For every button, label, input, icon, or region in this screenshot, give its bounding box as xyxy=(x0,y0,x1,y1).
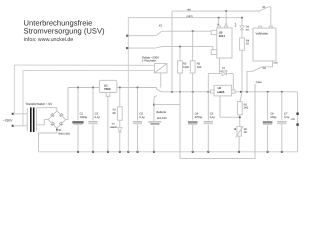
svg-text:9x1,2Ah: 9x1,2Ah xyxy=(157,117,167,120)
svg-text:L4805: L4805 xyxy=(217,91,225,94)
svg-text:100µ: 100µ xyxy=(270,116,276,119)
svg-text:U1: U1 xyxy=(104,84,108,87)
svg-text:DK: DK xyxy=(244,131,247,134)
svg-text:C6: C6 xyxy=(270,112,273,115)
svg-text:~230V: ~230V xyxy=(3,119,13,123)
svg-text:Batterie: Batterie xyxy=(156,111,166,114)
svg-text:100K: 100K xyxy=(183,66,189,69)
svg-text:C7: C7 xyxy=(284,112,287,115)
svg-text:D2: D2 xyxy=(112,123,115,126)
svg-text:Transformator ~ 9V: Transformator ~ 9V xyxy=(26,102,53,106)
svg-text:0,1µ: 0,1µ xyxy=(210,116,215,119)
svg-text:B40C-800: B40C-800 xyxy=(59,132,70,135)
svg-text:C1: C1 xyxy=(80,112,83,115)
svg-text:1000µ: 1000µ xyxy=(80,116,88,119)
svg-text:0,1µ: 0,1µ xyxy=(284,116,289,119)
svg-text:2K0: 2K0 xyxy=(244,107,249,110)
svg-text:R2: R2 xyxy=(244,103,247,106)
svg-text:8K: 8K xyxy=(113,112,116,115)
svg-text:D1: D1 xyxy=(222,67,225,70)
svg-text:com: com xyxy=(274,61,278,64)
svg-text:0,1µ: 0,1µ xyxy=(95,116,100,119)
svg-text:C4: C4 xyxy=(195,112,198,115)
svg-text:Voltmeter: Voltmeter xyxy=(256,32,269,36)
svg-text:R5: R5 xyxy=(197,63,200,66)
svg-text:U2: U2 xyxy=(218,87,221,90)
svg-text:Relais ~230V: Relais ~230V xyxy=(142,56,159,59)
svg-text:7809: 7809 xyxy=(104,88,110,91)
svg-text:R4: R4 xyxy=(246,39,249,42)
svg-text:0,1µ: 0,1µ xyxy=(139,116,144,119)
svg-text:Unterbrechungsfreie: Unterbrechungsfreie xyxy=(24,19,93,28)
svg-text:Stromversorgung (USV): Stromversorgung (USV) xyxy=(24,27,105,36)
svg-text:R1: R1 xyxy=(113,109,116,112)
svg-text:Puffer: Puffer xyxy=(256,81,262,84)
svg-text:K1: K1 xyxy=(159,24,163,27)
svg-text:C5: C5 xyxy=(139,112,142,115)
svg-text:4700µ: 4700µ xyxy=(195,116,203,119)
svg-text:D4: D4 xyxy=(246,26,249,29)
svg-text:7: 7 xyxy=(225,23,226,25)
svg-text:14: 14 xyxy=(217,23,219,25)
svg-text:C2: C2 xyxy=(95,112,98,115)
svg-text:+9V: +9V xyxy=(187,8,191,11)
svg-text:rot: rot xyxy=(246,28,249,31)
svg-text:1N4001: 1N4001 xyxy=(110,126,118,129)
svg-text:B1: B1 xyxy=(59,129,62,132)
svg-text:S2: S2 xyxy=(263,67,266,70)
svg-text:+5V: +5V xyxy=(291,118,295,121)
svg-text:2 Wechsler: 2 Wechsler xyxy=(142,59,156,62)
svg-text:C3: C3 xyxy=(210,112,213,115)
svg-text:R6: R6 xyxy=(244,128,247,131)
svg-text:4011: 4011 xyxy=(219,35,225,38)
svg-text:10K: 10K xyxy=(197,66,202,69)
svg-text:Infos: www.unckel.de: Infos: www.unckel.de xyxy=(24,37,74,43)
svg-text:U3: U3 xyxy=(219,31,223,34)
svg-text:R3: R3 xyxy=(183,63,186,66)
svg-text:(+9V): (+9V) xyxy=(187,15,193,18)
svg-text:1K: 1K xyxy=(246,43,249,46)
svg-text:S1: S1 xyxy=(262,6,265,9)
